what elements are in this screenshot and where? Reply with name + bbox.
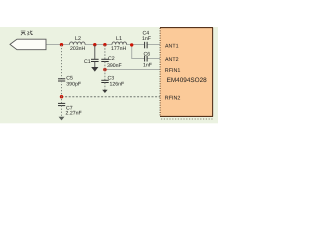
svg-text:C2: C2: [108, 56, 115, 62]
capacitor C4: [145, 42, 148, 49]
node C junction (C2 tap): [103, 43, 106, 46]
capacitor C1: [91, 59, 99, 67]
wire RFIN1 node down (dotted): [104, 70, 106, 81]
capacitor C3: [101, 80, 108, 90]
IC U1 EM4094 reader chip: [160, 28, 213, 119]
svg-text:RFIN2: RFIN2: [165, 96, 181, 102]
svg-text:177nH: 177nH: [111, 46, 127, 52]
svg-text:EM4094SO28: EM4094SO28: [167, 77, 208, 84]
capacitor C5: [58, 79, 65, 81]
wire node B down: [94, 45, 96, 59]
wire node C to pin RFIN1: [105, 69, 160, 71]
wire C6 to pin ANT2: [147, 58, 160, 60]
svg-text:390pF: 390pF: [66, 81, 81, 87]
wire node D to C6: [132, 45, 145, 59]
svg-text:1nF: 1nF: [142, 36, 151, 42]
svg-text:C6: C6: [144, 51, 151, 57]
svg-text:ANT1: ANT1: [165, 43, 179, 49]
svg-text:C3: C3: [108, 75, 115, 81]
wire node E to pin RFIN2 (dashed net): [62, 96, 161, 98]
svg-text:126nF: 126nF: [110, 82, 125, 88]
wire L1 to C4: [127, 44, 145, 46]
ground below C7: [59, 117, 65, 121]
wire C4 to pin ANT1: [147, 44, 160, 46]
antenna label (tian xian): [21, 31, 33, 36]
inductor L2: [70, 42, 86, 45]
wire node A down to C5 (dotted): [61, 45, 63, 79]
ground below C1: [91, 67, 98, 72]
ground below C3: [102, 90, 107, 93]
wire C5 to node E (dotted): [61, 81, 63, 103]
node A junction: [60, 43, 63, 46]
capacitor C6: [145, 56, 148, 62]
node RFIN1 junction: [103, 68, 106, 71]
inductor L1: [112, 42, 127, 45]
wire C7 to ground (dotted): [61, 106, 63, 117]
svg-text:1nF: 1nF: [143, 63, 152, 69]
wire node C down (dotted): [104, 45, 106, 59]
antenna connector: [10, 39, 46, 50]
svg-text:2.27nF: 2.27nF: [66, 111, 82, 117]
svg-text:ANT2: ANT2: [165, 57, 179, 63]
svg-text:L1: L1: [116, 36, 122, 42]
svg-text:390nF: 390nF: [107, 63, 122, 69]
node B junction (C1 tap): [93, 43, 96, 46]
capacitor C7: [58, 103, 65, 105]
wire L2 to L1: [85, 44, 112, 46]
svg-text:L2: L2: [75, 36, 81, 42]
wire antenna to node A: [46, 44, 70, 46]
capacitor C2: [101, 59, 108, 69]
svg-text:RFIN1: RFIN1: [165, 68, 181, 74]
node D junction (ANT branch): [130, 43, 133, 46]
svg-text:203nH: 203nH: [70, 46, 86, 52]
svg-text:C1: C1: [84, 59, 91, 65]
node E junction (RFIN2 tap): [60, 95, 63, 98]
